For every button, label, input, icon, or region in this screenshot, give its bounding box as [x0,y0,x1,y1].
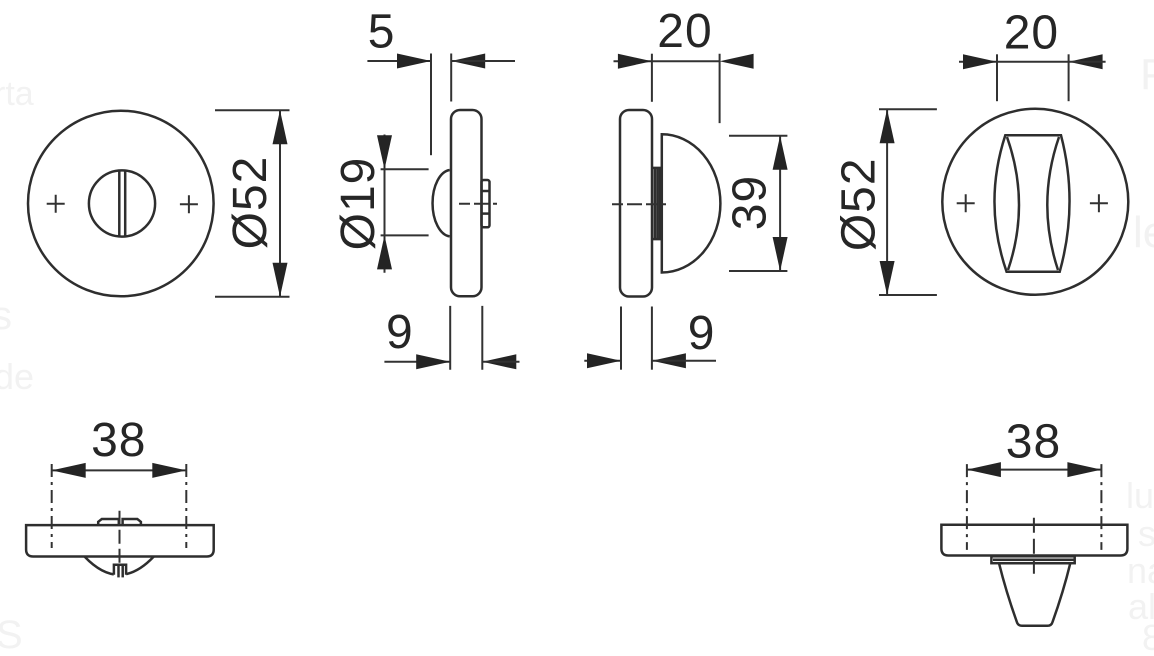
svg-text:38: 38 [1006,416,1061,469]
view3 rosette plate side [620,110,652,297]
view1 slot line right [124,171,127,237]
svg-text:S: S [0,613,23,656]
view2 dim O19 arrow top [377,135,392,169]
view2 dim 5 ext line left [430,54,432,156]
view6 plate top view [941,525,1127,556]
view3 dim 9 ext line right [651,307,653,370]
view2 release button bump [433,170,450,236]
view4 thumbturn inner arc left [1007,137,1019,270]
view3 dim 9 ext line left [620,307,622,370]
view5 plate top view [26,525,214,556]
svg-text:9: 9 [386,306,414,359]
view6 center dashline [1033,518,1035,574]
view2 dim 9 ext line right [481,306,483,370]
view3 dim 20 ext line left [651,54,653,102]
view4 thumbturn knob outline [994,135,1069,271]
view2 dim 9 tail left [384,361,450,363]
view4 dim 20 tail right [1069,61,1106,63]
svg-text:8: 8 [1142,617,1154,656]
view1 plus right [180,195,198,213]
view2 dim 5 arrow left [397,54,431,69]
view4 dim O52 tick top [879,108,937,110]
svg-text:Ø52: Ø52 [833,157,886,251]
view2 dim O19 arrow bottom [377,235,392,269]
svg-text:38: 38 [91,414,146,467]
view1 rosette outer circle [28,111,214,297]
view1 inner circle [89,170,155,236]
view3 dim 9 tail right [652,360,716,362]
view4 plus right [1090,194,1108,212]
view5 dim 38 line [52,469,187,471]
view4 dim 20 line [997,61,1069,63]
view2 dim O19 tick top [381,168,429,170]
view4 dim 20 tail left [959,61,997,63]
view4 thumbturn inner arc right [1047,137,1059,270]
view5 notch outline [114,565,126,575]
view3 neck inner line 2 [656,168,659,239]
svg-text:Ø52: Ø52 [224,156,277,250]
view2 dim 9 arrow right [482,354,516,369]
view2 dim 5 ext line right [450,54,452,102]
view2 centerline [459,203,497,205]
view6 dim 38 line [967,469,1102,471]
view5 dim 38 arrow left [52,463,86,478]
svg-text:le: le [1133,208,1154,257]
view1 plus left [47,195,65,213]
view4 dim O52 arrow down [880,261,895,295]
view1 slot line left [118,171,121,237]
view3 dim 20 ext line right [719,54,721,123]
view5 slot wall right [121,565,124,578]
svg-text:20: 20 [1004,7,1059,60]
svg-text:s: s [0,294,12,338]
view2 spindle tab divider 2 [482,212,490,215]
view6 dim 38 ext dashdot right [1100,464,1102,550]
view1 dim O52 line [279,110,281,297]
view4 dim O52 tick bottom [879,294,937,296]
svg-text:rta: rta [0,75,34,113]
view2 dim O19 line [384,135,386,273]
view4 dim 20 ext line right [1068,54,1070,101]
view4 dim 20 ext line left [996,54,998,101]
svg-text:5: 5 [368,6,396,59]
view5 dim 38 arrow right [152,463,186,478]
view4 dim O52 arrow up [880,109,895,143]
view1 dim O52 tick bottom [215,296,290,298]
view4 dim 20 arrow right [1069,54,1103,69]
view3 neck inner line 1 [654,168,657,239]
view5 dim 38 ext dashdot right [185,464,187,548]
view4 plus left [957,194,975,212]
view3 dim 39 arrow down [773,237,788,271]
view3 dim 20 line [652,60,720,62]
view4 dim O52 line [886,109,888,295]
view6 dim 38 ext dashdot left [966,464,968,550]
view4 rosette outer circle [942,109,1128,295]
view2 dim O19 tick bottom [381,234,429,236]
svg-text:de: de [0,356,34,397]
view1 dim O52 arrow down [273,263,288,297]
svg-text:20: 20 [657,5,712,58]
svg-text:9: 9 [688,307,716,360]
view3 dim 9 arrow left [587,353,621,368]
view2 dim 5 arrow right [451,54,485,69]
view1 dim O52 tick top [215,109,290,111]
view2 dim 5 tail left [367,60,431,62]
view3 dim 20 arrow right [720,54,754,69]
view5 release dome [85,557,154,575]
view6 dim 38 arrow left [967,462,1001,477]
view2 rosette plate side [451,110,482,296]
view2 spindle tab divider 1 [482,190,490,193]
view5 center dashline [119,511,121,566]
view5 slot tab left [98,519,119,525]
view3 centerline [612,203,666,205]
view2 dim 9 tail right [482,361,519,363]
view3 dim 20 arrow left [618,54,652,69]
view2 dim 9 arrow left [416,354,450,369]
view3 dim 9 tail left [584,360,621,362]
view5 notch mask [114,560,127,581]
svg-text:se: se [1138,513,1154,554]
view6 dim 38 arrow right [1067,462,1101,477]
svg-text:P: P [1140,50,1154,99]
svg-text:39: 39 [724,175,777,230]
view3 dim 9 arrow right [652,353,686,368]
view6 thumbturn grip [999,563,1070,626]
view3 neck band [652,168,660,239]
view5 slot tab right [123,519,141,525]
view1 dim O52 arrow up [273,110,288,144]
view3 dim 39 tick top [729,135,787,137]
view2 dim 9 ext line left [449,306,451,370]
view3 dim 20 tail left [614,60,652,62]
view6 knob base step [991,556,1074,563]
view3 dim 39 tick bottom [729,270,787,272]
view5 dim 38 ext dashdot left [51,464,53,548]
view3 dim 39 line [779,136,781,271]
svg-text:lue: lue [1126,475,1154,516]
view6 knob base inner line [993,559,1074,562]
view2 spindle tab [482,180,490,227]
view4 dim 20 arrow left [963,54,997,69]
view2 dim 5 tail right [451,60,515,62]
svg-text:nar: nar [1127,550,1154,591]
view3 thumbturn dome [662,134,721,272]
svg-text:Ø19: Ø19 [332,157,385,251]
view5 slot wall left [117,565,120,578]
view3 dim 39 arrow up [773,136,788,170]
